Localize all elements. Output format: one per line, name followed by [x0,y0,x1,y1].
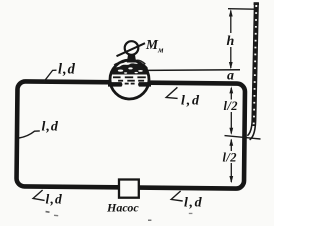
svg-text:l/2: l/2 [224,99,238,113]
svg-text:l,d: l,d [46,192,63,207]
svg-text:l/2: l/2 [223,150,237,164]
svg-text:l,d: l,d [181,93,201,108]
svg-text:l,d: l,d [42,120,59,135]
svg-text:Mм: Mм [145,37,164,55]
svg-text:l,d: l,d [58,62,76,78]
svg-text:l,d: l,d [184,195,203,210]
svg-text:h: h [227,34,235,49]
svg-text:a: a [227,68,234,83]
svg-text:Насос: Насос [106,201,139,215]
